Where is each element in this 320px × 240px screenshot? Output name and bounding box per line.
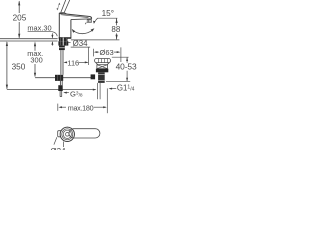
mounting shank (59, 38, 68, 42)
counter top line (0, 38, 58, 40)
dim O34 underline (71, 46, 90, 48)
dim 350 line (6, 42, 8, 89)
faucet body left edge (58, 13, 60, 38)
dim max.180 right arrow (94, 106, 106, 108)
dim 40-53 top ext (112, 56, 129, 58)
dim O63 right ext (120, 47, 122, 62)
dim max.300 down arrow (34, 64, 36, 73)
dim O34 arrow (66, 42, 71, 44)
spout underside (71, 18, 92, 21)
dim O63 left arrow (95, 51, 99, 53)
drain clamp nut (96, 69, 108, 73)
svg-text:Ø34: Ø34 (50, 147, 66, 150)
drain body (97, 65, 108, 69)
drain lever block (91, 74, 96, 79)
svg-text:40-53: 40-53 (116, 62, 137, 72)
dim 15 deg bracket line (94, 18, 117, 22)
svg-text:300: 300 (30, 56, 42, 65)
supply pipe stub (60, 91, 62, 97)
pop-up rod horizontal (35, 77, 92, 79)
top view lever capsule (69, 129, 100, 138)
dim max.300 up arrow (34, 46, 36, 51)
aerator (85, 20, 91, 25)
svg-text:205: 205 (13, 13, 27, 22)
dim G3/8 arrow (64, 92, 69, 94)
dim max.180 left arrow (60, 106, 66, 108)
cartridge dome (59, 12, 67, 13)
supply pipe (61, 50, 63, 75)
spout top face edge (61, 15, 89, 18)
top view leader lines (63, 142, 65, 148)
ext line right of faucet (88, 47, 90, 65)
svg-text:116: 116 (67, 59, 79, 68)
counter bottom line (0, 40, 58, 42)
dim 205 upper line with up arrow (18, 1, 20, 13)
swivel arc (73, 30, 94, 34)
dim 350 bottom ext line with arrow (7, 89, 96, 91)
connection block (59, 46, 65, 51)
dim 88 lower arrow (116, 33, 118, 39)
svg-text:350: 350 (12, 63, 26, 72)
mounting nut (58, 41, 68, 45)
drain flange (95, 59, 111, 63)
svg-text:max.180: max.180 (68, 104, 94, 113)
supply pipe end fitting (58, 85, 62, 91)
dim 116 line right (79, 61, 88, 63)
dim max.30 down arrow (51, 33, 53, 37)
top view spout stub (58, 131, 62, 137)
faucet body right edge (70, 20, 72, 39)
dim max.30 up arrow (51, 42, 53, 46)
faucet base band (59, 37, 71, 39)
pipe below nut (60, 81, 62, 85)
dim 88 upper arrow (116, 19, 118, 26)
dim 116 line left (65, 61, 67, 63)
svg-text:88: 88 (111, 25, 120, 34)
dim 40-53 up arrow (126, 57, 128, 62)
dim 40-53 down arrow (126, 71, 128, 81)
G3/8 nut (55, 75, 63, 81)
lever motion arrow (57, 3, 59, 9)
dim O63 right arrow (114, 51, 119, 53)
dim max.180 left ext (57, 104, 59, 111)
svg-text:max.30: max.30 (27, 23, 51, 32)
faucet lever (61, 0, 70, 12)
svg-text:15°: 15° (102, 9, 114, 18)
dim 205 lower line with down arrow (18, 22, 20, 38)
dim O63 left ext (93, 49, 95, 57)
spout top (59, 13, 91, 18)
drain tail (98, 72, 105, 83)
top view body circles (60, 127, 74, 141)
drain neck taper (96, 63, 110, 65)
svg-text:Ø63: Ø63 (100, 48, 114, 57)
dim max.30 underline + leader (28, 32, 58, 37)
drain tailpipe thin (97, 83, 100, 99)
dim 40-53 bottom ext (106, 81, 130, 83)
dim max.180 right ext (106, 88, 108, 113)
basin line right (71, 39, 120, 41)
dim G1 1/4 arrow (110, 88, 116, 90)
